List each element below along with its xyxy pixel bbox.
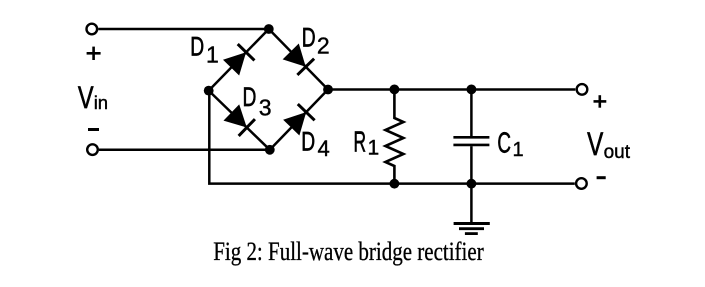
plus sign input	[87, 47, 101, 60]
node top (bridge)	[264, 24, 274, 34]
node R1 bottom	[390, 179, 400, 189]
svg-text:in: in	[94, 92, 108, 113]
svg-text:4: 4	[318, 136, 330, 161]
terminal Vin - (open circle)	[87, 144, 98, 155]
svg-text:out: out	[604, 142, 631, 163]
wire top rail (right node to Vout+)	[328, 88, 575, 91]
node C1 top	[467, 85, 477, 95]
terminal Vin + (open circle)	[87, 24, 98, 35]
svg-text:D: D	[302, 22, 316, 52]
svg-text:1: 1	[368, 136, 380, 159]
minus sign input	[88, 128, 99, 131]
node right (bridge)	[323, 85, 333, 95]
plus sign output	[594, 95, 607, 108]
capacitor C1	[453, 89, 489, 183]
diode D4 (anode bottom node, cathode right node)	[283, 104, 314, 135]
wire bridge edge left-top	[209, 29, 269, 91]
diode D1 (anode left node, cathode top node)	[223, 44, 254, 75]
wire bridge edge bottom-right	[270, 90, 328, 150]
svg-text:1: 1	[206, 41, 219, 67]
wire bridge edge top-right	[269, 29, 328, 90]
diode D2 (anode top node, cathode right node)	[283, 44, 314, 75]
label D3	[243, 82, 272, 120]
node R1 top	[390, 85, 400, 95]
wire bridge edge left-bottom	[209, 91, 270, 150]
svg-text:2: 2	[317, 32, 330, 58]
svg-text:D: D	[190, 32, 204, 62]
node bottom (bridge)	[265, 145, 275, 155]
svg-text:C: C	[497, 128, 511, 160]
minus sign output	[597, 176, 606, 179]
label D4	[301, 126, 330, 161]
svg-text:1: 1	[513, 139, 524, 161]
svg-text:3: 3	[259, 94, 272, 120]
svg-text:D: D	[301, 126, 315, 156]
terminal Vout + (open circle)	[577, 84, 588, 95]
label D2	[302, 22, 330, 58]
wire bottom input (Vin- to bridge bottom node)	[99, 149, 270, 152]
label R1	[354, 127, 380, 159]
label C1	[497, 128, 523, 161]
svg-text:V: V	[587, 127, 603, 163]
wire top input (Vin+ to bridge top node)	[98, 28, 269, 31]
node C1 bottom / ground junction	[467, 179, 477, 189]
resistor R1	[385, 89, 403, 183]
diode D3 (anode left node, cathode bottom node)	[223, 104, 254, 135]
wire left node down and bottom rail to Vout-	[209, 91, 575, 184]
node left (bridge)	[204, 86, 214, 96]
label Vout	[587, 127, 631, 163]
svg-text:V: V	[78, 80, 94, 115]
svg-text:R: R	[354, 127, 367, 158]
label D1	[190, 32, 218, 68]
ground	[454, 184, 490, 234]
svg-text:D: D	[243, 82, 257, 112]
svg-text:Fig 2: Full-wave bridge rectif: Fig 2: Full-wave bridge rectifier	[213, 237, 484, 266]
label Vin	[78, 80, 108, 115]
terminal Vout - (open circle)	[576, 178, 587, 189]
